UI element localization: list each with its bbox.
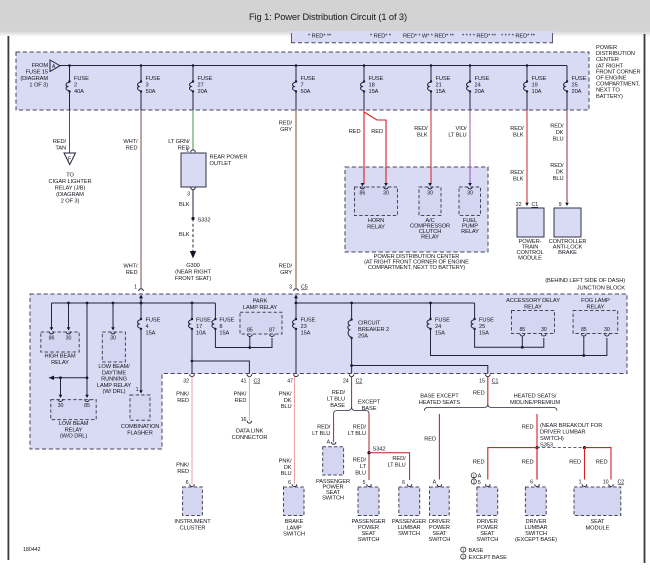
svg-text:BRAKE: BRAKE [285,519,304,525]
svg-text:A: A [478,474,482,480]
dashed link S353 to seat module splice [537,447,585,449]
svg-text:RED/: RED/ [550,163,564,169]
svg-text:EXCEPT BASE: EXCEPT BASE [469,555,508,561]
split brace (15/C1) [424,404,557,411]
svg-text:CENTER: CENTER [596,57,619,63]
svg-text:RELAY: RELAY [587,305,605,311]
header bar [0,0,650,31]
driver lumbar switch [515,487,557,543]
svg-text:BLU: BLU [355,470,366,476]
svg-text:RED/: RED/ [53,139,67,145]
svg-text:TO: TO [66,173,74,179]
svg-text:FUSE: FUSE [435,318,450,324]
svg-text:CIRCUIT: CIRCUIT [358,321,381,327]
svg-text:FUSE: FUSE [219,318,234,324]
driver power seat switch (base) [428,487,450,543]
wire VIO/LT BLU [448,110,470,185]
svg-text:LOW BEAM: LOW BEAM [59,421,89,427]
fuse F2 [66,64,89,110]
svg-text:C2: C2 [618,480,625,486]
svg-text:FRONT CORNER: FRONT CORNER [596,69,641,75]
svg-text:PNK/: PNK/ [279,392,292,398]
svg-text:VIO/: VIO/ [456,126,467,132]
svg-text:RED: RED [235,398,247,404]
wire LT GRN/RED [168,110,195,154]
svg-text:19: 19 [532,83,538,89]
svg-text:Fig 1: Power Distribution Circ: Fig 1: Power Distribution Circuit (1 of … [249,12,407,22]
svg-text:LAMP RELAY: LAMP RELAY [243,305,277,311]
svg-text:RUNNING: RUNNING [101,377,127,383]
bus wire [60,65,567,67]
svg-text:15A: 15A [369,89,379,95]
svg-text:BLK: BLK [513,177,524,183]
svg-text:FUSE: FUSE [301,318,316,324]
svg-text:DK: DK [284,465,292,471]
svg-text:FROM: FROM [32,63,49,69]
JB left bus [52,302,216,304]
svg-text:SWITCH: SWITCH [428,537,450,543]
svg-text:RED/: RED/ [332,390,346,396]
svg-text:BASE: BASE [330,403,345,409]
svg-text:20A: 20A [358,334,368,340]
accessory delay relay [506,298,560,347]
svg-text:15A: 15A [435,331,445,337]
fuse F19 [524,64,547,110]
label: FROM FUSE 15 (DIAGRAM 1 OF 3) [20,63,48,89]
fuel pump relay [459,183,481,235]
data link connector [232,429,268,441]
svg-text:RED: RED [349,129,361,135]
svg-text:RED: RED [371,129,383,135]
svg-text:30: 30 [427,191,433,197]
svg-text:MIDLINE/PREMIUM: MIDLINE/PREMIUM [510,400,560,406]
split brace (24/C2) [334,407,369,414]
svg-text:(AT RIGHT: (AT RIGHT [596,63,624,69]
svg-text:RED: RED [522,460,534,466]
svg-text:BASE: BASE [469,548,484,554]
seat module splice [583,446,586,449]
svg-text:15A: 15A [219,331,229,337]
S353 note [540,423,602,448]
svg-text:RED/: RED/ [353,425,367,431]
svg-text:RED: RED [473,391,485,397]
svg-text:OF ENGINE: OF ENGINE [596,76,627,82]
svg-text:86: 86 [49,336,55,342]
svg-text:RED: RED [177,398,189,404]
svg-text:REAR POWER: REAR POWER [210,155,248,161]
svg-text:RED/: RED/ [510,126,524,132]
fog lamp relay [573,298,618,356]
svg-text:LT BLU: LT BLU [387,462,405,468]
svg-text:BLU: BLU [281,471,292,477]
svg-text:RED: RED [596,460,608,466]
svg-text:(NEAR RIGHT: (NEAR RIGHT [175,270,211,276]
svg-text:POWER: POWER [596,45,617,51]
instrument cluster [174,487,211,531]
svg-text:30: 30 [467,191,473,197]
svg-text:2 OF 3): 2 OF 3) [61,199,80,205]
svg-text:FLASHER: FLASHER [127,430,153,436]
svg-text:ACCESSORY DELAY: ACCESSORY DELAY [506,298,560,304]
horn relay [355,183,398,231]
svg-text:DAYTIME: DAYTIME [102,370,126,376]
svg-text:RED: RED [473,460,485,466]
svg-text:3: 3 [289,285,292,291]
low beam drl relay feed [112,302,115,305]
PDC2 caption [364,254,469,271]
svg-text:41: 41 [241,379,247,385]
svg-text:GRY: GRY [280,127,292,133]
svg-text:JUNCTION BLOCK: JUNCTION BLOCK [577,286,626,292]
svg-text:RED: RED [424,437,436,443]
svg-text:RELAY (J/B): RELAY (J/B) [55,186,86,192]
svg-text:30: 30 [110,336,116,342]
svg-text:BASE: BASE [362,406,377,412]
svg-text:RELAY: RELAY [51,360,69,366]
svg-text:30: 30 [541,327,547,333]
svg-text:BASE EXCEPT: BASE EXCEPT [420,394,459,400]
svg-text:50A: 50A [301,89,311,95]
svg-text:6: 6 [288,480,291,486]
svg-text:SWITCH: SWITCH [322,496,344,502]
svg-text:RED/: RED/ [317,425,331,431]
fuse F7 [293,64,316,110]
svg-text:24: 24 [475,83,481,89]
heated-seats branch RED to S353 [522,414,537,480]
svg-text:SWITCH: SWITCH [398,531,420,537]
passenger lumbar switch [392,487,426,537]
svg-text:32: 32 [183,379,189,385]
svg-text:COMPARTMENT, NEXT TO BATTERY): COMPARTMENT, NEXT TO BATTERY) [368,265,465,271]
svg-text:MODULE: MODULE [518,256,542,262]
wire to seat module pin 1 [569,448,587,487]
svg-text:SEAT: SEAT [590,519,605,525]
svg-text:CIGAR LIGHTER: CIGAR LIGHTER [49,179,92,185]
wire to seat module pin 10 [585,448,625,487]
fuse 8 [212,303,272,349]
svg-text:G300: G300 [186,263,200,269]
wire PNK/RED to instrument cluster [176,377,194,487]
svg-text:FUSE: FUSE [301,76,316,82]
svg-text:NEXT TO: NEXT TO [596,88,620,94]
svg-text:RED* * W* * RED* **: RED* * W* * RED* ** [403,34,455,40]
svg-text:SWITCH): SWITCH) [540,436,564,442]
driver power seat switch [476,487,498,543]
svg-text:BLK: BLK [179,232,190,238]
svg-text:30: 30 [66,336,72,342]
svg-text:(DIAGRAM: (DIAGRAM [56,192,84,198]
svg-text:25: 25 [479,324,485,330]
svg-text:LT BLU: LT BLU [312,431,330,437]
svg-text:* * * * RED* **: * * * * RED* ** [462,34,497,40]
svg-text:18: 18 [369,83,375,89]
svg-text:COMPARTMENT,: COMPARTMENT, [596,82,640,88]
svg-text:5: 5 [478,480,481,486]
svg-text:BLU: BLU [553,176,564,182]
pin 3 / BLK wire [179,187,195,218]
svg-text:10: 10 [603,480,609,486]
wire below S353 to driver lumbar [522,448,540,487]
svg-text:23: 23 [301,324,307,330]
wire below S342 [353,458,372,487]
svg-text:47: 47 [287,379,293,385]
svg-text:40A: 40A [74,89,84,95]
circuit breaker 2 [348,302,389,374]
svg-text:FOG LAMP: FOG LAMP [581,298,610,304]
svg-text:FUSE: FUSE [369,76,384,82]
svg-text:180442: 180442 [23,547,40,553]
svg-text:DRIVER LUMBAR: DRIVER LUMBAR [540,430,585,436]
svg-text:LT GRN/: LT GRN/ [168,139,190,145]
svg-text:RED: RED [569,460,581,466]
svg-text:A: A [327,440,331,446]
svg-text:S332: S332 [198,218,211,224]
svg-text:(BEHIND LEFT SIDE OF DASH): (BEHIND LEFT SIDE OF DASH) [545,278,625,284]
except-base branch wire to S342 [348,414,369,481]
svg-text:PNK/: PNK/ [176,392,189,398]
base branch wire RED/LT BLU [312,414,336,446]
svg-text:85: 85 [84,403,90,409]
svg-text:SWITCH: SWITCH [358,537,380,543]
svg-text:COMBINATION: COMBINATION [121,424,160,430]
wire RED branch to horn 30 [364,112,386,185]
combination flasher [121,387,160,436]
pin legend marks 1A / 2-5 [471,473,481,486]
fuse F27 [190,64,213,110]
svg-text:24: 24 [343,379,349,385]
svg-text:GRY: GRY [280,270,292,276]
dashed BLK wire to ground [179,219,193,252]
fuse F21 [428,64,451,110]
svg-text:(EXCEPT BASE): (EXCEPT BASE) [515,537,557,543]
svg-text:PARK: PARK [253,299,268,305]
a/c compressor clutch relay [410,183,450,241]
fuse 17 [189,302,212,374]
label: POWER DISTRIBUTION CENTER (right side) [596,45,641,100]
park lamp relay [240,299,282,348]
ground G300 [175,251,212,282]
svg-text:DK: DK [556,130,564,136]
power distribution center 2 enclosure [345,167,488,252]
svg-text:6: 6 [530,480,533,486]
svg-text:FUSE: FUSE [572,76,587,82]
svg-text:3: 3 [187,192,190,198]
svg-text:1: 1 [136,387,139,393]
fuse F24 [467,64,490,110]
label: junction block [545,278,625,292]
svg-text:OUTLET: OUTLET [210,161,232,167]
svg-text:LAMP: LAMP [286,525,301,531]
fuse F3 [138,64,161,110]
svg-text:RED: RED [126,270,138,276]
svg-text:C5: C5 [301,285,308,291]
wire RED/GRY [279,110,308,291]
partial cropped box at top [291,31,553,43]
svg-text:15: 15 [479,379,485,385]
svg-text:FRONT SEAT): FRONT SEAT) [175,276,211,282]
svg-text:TAN: TAN [55,146,66,152]
svg-text:85: 85 [581,327,587,333]
JB exits: cups and pin labels [183,374,194,384]
svg-text:C1: C1 [532,202,539,208]
long feed to low beam w/o drl [86,302,89,305]
brake lamp switch [283,487,305,538]
svg-text:LOW BEAM/: LOW BEAM/ [98,364,130,370]
svg-text:RELAY: RELAY [65,427,83,433]
wire RED/LT BLU from pin 24 with base/except-base split [327,377,381,412]
svg-text:WHT/: WHT/ [123,139,138,145]
svg-text:(DIAGRAM: (DIAGRAM [20,76,48,82]
svg-text:15A: 15A [479,331,489,337]
svg-text:FUSE: FUSE [198,76,213,82]
svg-text:BREAKER 2: BREAKER 2 [358,327,389,333]
fuse 25 (JB) [471,303,544,349]
svg-text:CONNECTOR: CONNECTOR [232,435,268,441]
wire RED from pin 15 with heated-seats split [473,377,488,405]
svg-text:(NEAR BREAKOUT FOR: (NEAR BREAKOUT FOR [540,423,602,429]
wire RED/TAN [53,110,70,153]
svg-text:C3: C3 [254,379,261,385]
svg-text:1: 1 [579,480,582,486]
svg-text:20A: 20A [475,89,485,95]
svg-text:85: 85 [247,328,253,334]
low beam / drl relay [97,327,131,395]
svg-text:17: 17 [196,324,202,330]
svg-text:FUSE: FUSE [146,76,161,82]
svg-text:RED/: RED/ [510,170,524,176]
svg-text:4: 4 [146,324,149,330]
svg-text:DK: DK [556,170,564,176]
svg-text:FUSE: FUSE [196,318,211,324]
svg-text:SWITCH: SWITCH [476,537,498,543]
wire PNK/DK BLU to brake lamp switch [279,377,297,487]
svg-text:30: 30 [58,403,64,409]
svg-text:HIGH BEAM: HIGH BEAM [44,354,75,360]
fuse 23 [293,298,316,374]
svg-text:* * * * RED* **: * * * * RED* ** [501,34,536,40]
splice S342 [367,447,385,455]
svg-text:INSTRUMENT: INSTRUMENT [174,519,211,525]
svg-text:20A: 20A [572,89,582,95]
svg-text:30: 30 [604,327,610,333]
svg-text:15A: 15A [436,89,446,95]
svg-text:RELAY: RELAY [421,235,439,241]
svg-text:* RED* **: * RED* ** [308,34,332,40]
svg-text:BLK: BLK [417,133,428,139]
svg-text:FUSE: FUSE [532,76,547,82]
svg-text:8: 8 [219,324,222,330]
connector F triangle [64,153,76,165]
svg-text:15A: 15A [146,331,156,337]
passenger power seat switch [351,487,385,543]
svg-text:27: 27 [198,83,204,89]
wire RED/BLK to PCM [510,110,527,204]
svg-text:10A: 10A [196,331,206,337]
wire PNK/RED to DLC [234,377,252,424]
branch line with left arrow [49,376,89,396]
JB right bus [295,302,298,305]
svg-text:RED/: RED/ [414,126,428,132]
low beam relay (w/o drl) [51,395,96,440]
right page border [644,34,646,563]
svg-text:15A: 15A [301,331,311,337]
svg-text:21: 21 [436,83,442,89]
svg-text:1: 1 [134,285,137,291]
svg-text:DATA LINK: DATA LINK [236,429,264,435]
svg-text:S353: S353 [540,442,553,448]
svg-text:MODULE: MODULE [586,525,610,531]
fuse F18 [361,64,384,110]
svg-text:BLU: BLU [553,137,564,143]
svg-text:S342: S342 [373,447,386,453]
svg-text:LT BLU: LT BLU [327,396,345,402]
cb2 branch to pin 15 [350,364,488,373]
svg-text:(W/O DRL): (W/O DRL) [60,434,87,440]
svg-text:C1: C1 [492,379,499,385]
svg-text:RED: RED [177,469,189,475]
svg-text:FUSE: FUSE [436,76,451,82]
svg-text:1 OF 3): 1 OF 3) [29,83,48,89]
svg-text:25: 25 [572,83,578,89]
svg-text:6: 6 [186,480,189,486]
S353 branch left to driver power seat switch [473,448,537,487]
svg-text:10A: 10A [532,89,542,95]
svg-text:30: 30 [383,191,389,197]
svg-text:RED: RED [522,425,534,431]
svg-text:7: 7 [301,83,304,89]
svg-text:BLU: BLU [281,404,292,410]
svg-text:FUSE: FUSE [479,318,494,324]
svg-text:BLK: BLK [179,202,190,208]
wire WHT/RED [123,110,143,291]
svg-text:RED: RED [126,146,138,152]
wire RED to horn 86 [349,110,364,185]
svg-text:HEATED SEATS/: HEATED SEATS/ [514,394,557,400]
svg-text:FUSE: FUSE [475,76,490,82]
splice S353 [535,446,538,449]
fuse 17 branch to pin 41 [191,360,250,374]
svg-text:A: A [433,480,437,486]
svg-text:6: 6 [402,480,405,486]
high beam relay [41,327,79,366]
svg-text:3: 3 [146,83,149,89]
svg-text:FUSE: FUSE [74,76,89,82]
svg-text:9: 9 [559,202,562,208]
svg-text:LT BLU: LT BLU [448,133,466,139]
svg-text:24: 24 [435,324,441,330]
svg-text:LT: LT [360,464,367,470]
svg-text:PNK/: PNK/ [176,463,189,469]
svg-text:LAMP RELAY: LAMP RELAY [97,383,131,389]
svg-text:(W/ DRL): (W/ DRL) [103,389,126,395]
svg-text:RELAY: RELAY [524,305,542,311]
svg-text:CLUSTER: CLUSTER [180,525,206,531]
svg-text:22: 22 [516,202,522,208]
svg-text:BRAKE: BRAKE [558,250,577,256]
svg-text:BLK: BLK [513,133,524,139]
svg-text:BATTERY): BATTERY) [596,94,623,100]
wire RED/BLK to A/C relay [414,110,431,185]
svg-text:16: 16 [241,417,247,423]
powertrain control module [516,202,544,262]
svg-text:RELAY: RELAY [461,229,479,235]
label: TO CIGAR LIGHTER RELAY [49,173,92,205]
svg-text:50A: 50A [146,89,156,95]
svg-text:FUSE 15: FUSE 15 [26,70,48,76]
svg-text:F: F [68,157,71,163]
svg-text:* RED* *: * RED* * [370,34,392,40]
svg-text:RED/: RED/ [353,458,367,464]
